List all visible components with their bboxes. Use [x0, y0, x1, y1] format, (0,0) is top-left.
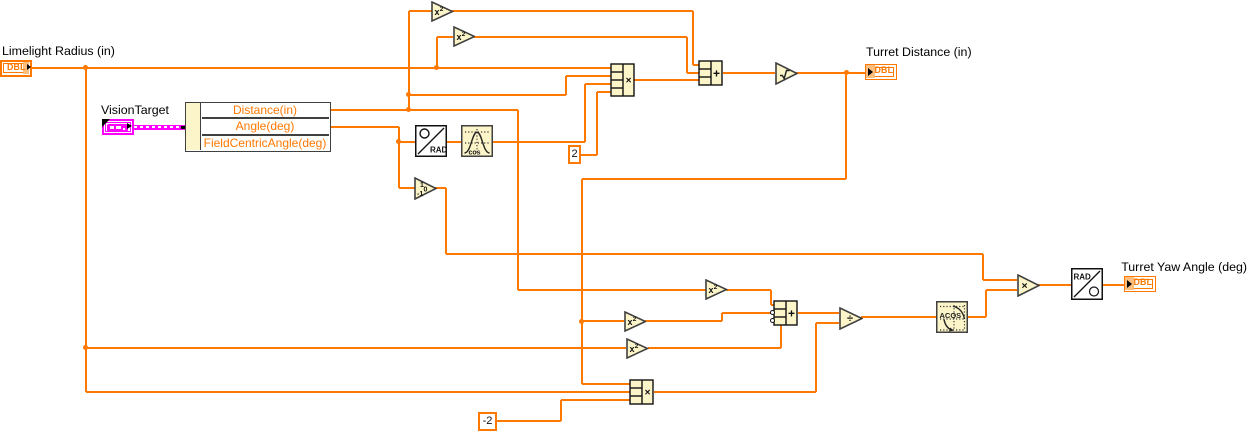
label Limelight Radius (in) — [2, 44, 115, 58]
wire divide out — [861, 316, 936, 318]
wire distance feedback left — [582, 178, 847, 180]
svg-text:×: × — [1021, 279, 1027, 291]
numeric constant -2 — [478, 412, 497, 431]
indicator terminal Turret Yaw Angle (deg) DBL — [1124, 276, 1156, 292]
wire x2#4 rise — [721, 313, 723, 322]
svg-text:2: 2 — [440, 6, 444, 13]
compound multiply CM1 — [610, 63, 635, 97]
label Turret Yaw Angle (deg) — [1121, 260, 1247, 274]
svg-text:×: × — [626, 75, 632, 86]
wire limelight radius main — [32, 67, 611, 69]
wire into add2 in1 — [771, 304, 775, 306]
wire limelight to multiply M2 in2 — [86, 391, 631, 393]
numeric constant 2 — [568, 145, 581, 164]
rad-to-deg conversion — [1071, 268, 1103, 300]
compound add A1 — [698, 60, 723, 86]
deg-to-rad conversion — [415, 125, 447, 157]
wire into x2#4 — [582, 320, 625, 322]
wire add1 out — [723, 72, 776, 74]
wire x2#2 out — [474, 36, 687, 38]
wire acos rise — [985, 290, 987, 318]
svg-text:RAD: RAD — [1074, 273, 1092, 282]
wire x2#1 out — [452, 10, 693, 12]
arccosine function — [936, 301, 968, 333]
wire mult-tri out — [1038, 284, 1071, 286]
svg-text:2: 2 — [714, 284, 718, 291]
wire into CM1 in4 — [597, 91, 612, 93]
svg-text:RAD: RAD — [430, 146, 447, 155]
cosine function — [461, 125, 493, 157]
wire const2 out — [581, 154, 597, 156]
wire cluster VisionTarget to unbundle — [134, 125, 187, 130]
wire into CM1 in3 — [585, 83, 612, 85]
control terminal Limelight Radius DBL — [0, 60, 32, 77]
wire const-2 out — [497, 420, 561, 422]
compound multiply M2 — [629, 379, 654, 405]
wire x2#5 out — [648, 347, 781, 349]
svg-text:2: 2 — [461, 31, 465, 38]
wire into divide in2 — [816, 322, 839, 324]
compound add A2 — [773, 300, 798, 326]
wire cos out — [493, 141, 585, 143]
node junction angle-1 — [396, 139, 401, 144]
wire distance branch rise — [565, 76, 567, 95]
wire distance branch to CM1 — [409, 94, 566, 96]
square function x2 #5 — [626, 338, 649, 359]
wire into mult-tri in2 — [986, 289, 1018, 291]
wire const2 rise — [596, 92, 598, 155]
sign function — [414, 177, 437, 200]
square function x2 #1 — [431, 1, 454, 22]
wire acos out — [968, 316, 986, 318]
wire x2#5 rise — [780, 325, 782, 348]
node junction limelight-1 — [83, 65, 88, 70]
wire branch up to x2#2 — [436, 37, 438, 68]
indicator terminal Turret Distance (in) DBL — [865, 64, 897, 80]
wire x2#1 drop — [692, 11, 694, 65]
wire sqrt out — [796, 72, 865, 74]
wire sign long wire — [446, 253, 984, 255]
wire into sign — [399, 187, 415, 189]
svg-text:×: × — [644, 387, 650, 398]
wire into multiply M2 in3 — [561, 399, 631, 401]
wire add2 out — [798, 312, 840, 314]
node junction distance-1 — [406, 107, 411, 112]
wire x2#2 drop — [686, 37, 688, 73]
wire sign drop — [445, 188, 447, 254]
label VisionTarget — [101, 103, 169, 117]
wire sign drop2 — [982, 254, 984, 281]
wire into deg-to-rad — [399, 141, 416, 143]
wire deg-to-rad out — [447, 141, 461, 143]
wire x2#3 out — [726, 289, 771, 291]
svg-text:+: + — [788, 306, 795, 320]
wire into x2#3 — [518, 289, 706, 291]
square function x2 #3 — [705, 279, 728, 300]
wire into mult-tri in1 — [983, 279, 1017, 281]
wire rad-to-deg out — [1103, 284, 1124, 286]
svg-text:÷: ÷ — [847, 313, 853, 325]
wire multiply M2 out — [654, 391, 817, 393]
svg-text:2: 2 — [632, 316, 636, 323]
wire cos rise — [584, 84, 586, 142]
wire sign out — [435, 187, 446, 189]
wire into multiply M2 in1 — [582, 383, 631, 385]
svg-text:2: 2 — [635, 343, 639, 350]
wire into x2#1 — [409, 10, 433, 12]
wire M2 rise — [815, 323, 817, 392]
node junction distance-2 — [406, 92, 411, 97]
divide function — [839, 307, 863, 330]
square function x2 #4 — [624, 311, 647, 332]
wire const-2 rise — [560, 400, 562, 422]
wire x2#4 out — [645, 320, 722, 322]
node junction turret-distance-2 — [579, 319, 584, 324]
svg-text:0: 0 — [423, 186, 427, 193]
wire limelight radius drop — [85, 68, 87, 392]
arrowhead into unbundle — [181, 126, 190, 129]
node junction limelight-3 — [434, 65, 439, 70]
wire distance feedback drop2 — [581, 179, 583, 384]
multiply function — [1017, 274, 1040, 297]
wire distance down — [517, 110, 519, 290]
wire into add1 in1 — [693, 64, 700, 66]
unbundle-by-name VisionTarget — [185, 102, 331, 153]
label Turret Distance (in) — [866, 45, 972, 59]
wire CM1 out to add1 in3 — [634, 79, 699, 81]
svg-text:ACOS: ACOS — [940, 311, 962, 320]
wire limelight to x2#5 — [86, 347, 627, 349]
svg-text:-1: -1 — [417, 191, 423, 198]
wire x2#3 drop — [770, 290, 772, 305]
wire into CM1 in2 — [566, 75, 612, 77]
square root function — [775, 62, 798, 85]
svg-text:cos: cos — [469, 150, 481, 157]
wire distance out — [331, 109, 518, 111]
wire angle out — [331, 126, 399, 128]
wire into add1 in2 — [687, 72, 700, 74]
wire distance feedback drop — [845, 73, 847, 179]
wire into x2#2 — [437, 36, 454, 38]
control terminal VisionTarget cluster — [102, 119, 134, 135]
node junction turret-distance — [844, 70, 849, 75]
svg-text:+: + — [713, 66, 720, 80]
square function x2 #2 — [453, 26, 476, 47]
node junction limelight-2 — [83, 345, 88, 350]
wire distance up to x2#1 — [408, 11, 410, 110]
wire angle drop — [398, 127, 400, 188]
wire into add2 in2 — [722, 312, 771, 314]
